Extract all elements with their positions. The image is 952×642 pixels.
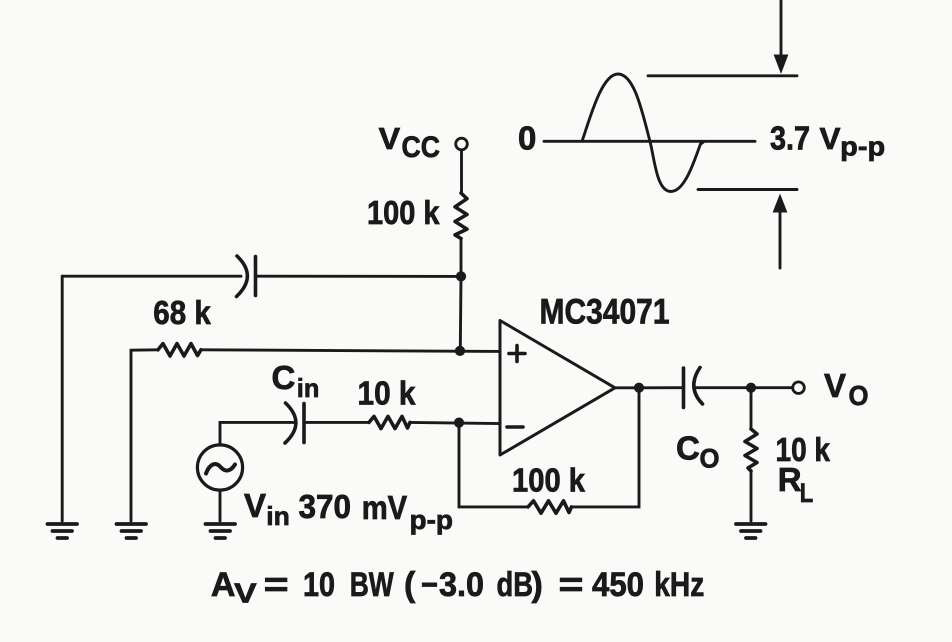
- svg-text:p-p: p-p: [410, 505, 454, 535]
- label gain and bandwidth formula: [211, 566, 704, 609]
- svg-text:C: C: [676, 430, 700, 467]
- wire VCC to R top: [460, 150, 463, 193]
- wire 10 k to op-amp - input: [410, 422, 500, 423]
- svg-text:MC34071: MC34071: [540, 293, 670, 332]
- node A junction: [456, 271, 466, 281]
- svg-text:V: V: [234, 578, 257, 609]
- svg-text:370: 370: [299, 488, 352, 525]
- wire left to resistor 68 k: [131, 348, 158, 351]
- wire capacitor to left rail: [62, 275, 241, 278]
- terminal Vo: [793, 382, 805, 394]
- waveform upper arrow: [780, 0, 783, 55]
- svg-text:O: O: [849, 380, 869, 411]
- svg-text:V: V: [820, 121, 841, 156]
- op-amp + symbol: [509, 346, 525, 362]
- wire node A to node B: [459, 276, 463, 351]
- svg-text:mV: mV: [362, 489, 408, 526]
- svg-text:dB: dB: [497, 566, 534, 604]
- waveform zero line: [544, 140, 755, 143]
- wire feedback left segment: [459, 505, 528, 508]
- svg-text:O: O: [700, 444, 720, 474]
- resistor 68 k: [158, 344, 201, 356]
- ground G4: [736, 524, 766, 538]
- wire R bottom to node A: [460, 239, 463, 277]
- ground G1: [48, 524, 78, 538]
- svg-text:=: =: [559, 566, 584, 604]
- svg-text:CC: CC: [402, 131, 441, 164]
- svg-text:10: 10: [303, 566, 335, 604]
- label VCC: [379, 121, 440, 164]
- wire RL to ground: [750, 471, 753, 521]
- sine symbol inside Vin: [206, 464, 235, 473]
- svg-text:=: =: [264, 566, 289, 604]
- terminal VCC: [456, 138, 468, 150]
- svg-text:450: 450: [592, 566, 644, 604]
- svg-text:kHz: kHz: [654, 566, 704, 604]
- wire node C down to feedback: [458, 423, 461, 507]
- svg-text:100 k: 100 k: [367, 194, 440, 231]
- svg-text:(: (: [404, 566, 416, 604]
- wire Vin top to input line: [220, 422, 294, 445]
- wire Co to terminal Vo: [696, 386, 793, 389]
- wire 68 k to op-amp + input: [201, 350, 500, 352]
- svg-text:0: 0: [518, 120, 536, 157]
- svg-text:A: A: [211, 566, 236, 604]
- label Co: [676, 430, 720, 474]
- wire node E down to RL: [750, 388, 753, 429]
- wire Vin bottom to ground: [219, 490, 222, 521]
- waveform lower arrow: [779, 212, 782, 269]
- svg-text:100 k: 100 k: [512, 462, 586, 499]
- svg-text:3.0: 3.0: [439, 566, 484, 604]
- node B junction: [455, 346, 465, 356]
- waveform sine curve: [582, 74, 703, 192]
- label Cin: [272, 359, 320, 403]
- source Vin circle: [197, 445, 242, 490]
- svg-text:3.7: 3.7: [770, 120, 810, 157]
- svg-text:R: R: [778, 461, 802, 498]
- svg-text:p-p: p-p: [840, 132, 885, 162]
- svg-text:−: −: [421, 566, 438, 604]
- svg-text:L: L: [800, 478, 814, 508]
- svg-text:in: in: [297, 373, 320, 403]
- svg-text:BW: BW: [350, 566, 395, 604]
- svg-text:68 k: 68 k: [153, 294, 211, 331]
- svg-text:V: V: [824, 367, 846, 404]
- resistor RL 10 k: [745, 429, 757, 471]
- wire op-amp output: [615, 386, 682, 389]
- wire Cin to resistor 10 k: [305, 421, 369, 424]
- op-amp - symbol: [507, 425, 523, 429]
- svg-text:): ): [532, 566, 543, 604]
- ground G3: [206, 524, 236, 538]
- capacitor Cin: [285, 403, 296, 443]
- wire left rail down: [61, 276, 64, 521]
- ground G2: [117, 524, 147, 538]
- node C junction: [454, 418, 464, 428]
- waveform lower peak line: [698, 188, 797, 191]
- resistor 100 k pull-up: [455, 193, 467, 239]
- wire 68k left rail down: [130, 350, 133, 521]
- label Vo: [824, 367, 869, 411]
- label RL: [778, 461, 814, 508]
- node D output junction: [634, 383, 644, 393]
- capacitor C1 bypass: [237, 256, 248, 297]
- node E junction: [746, 383, 756, 393]
- svg-text:in: in: [266, 501, 290, 531]
- wire feedback right segment: [572, 388, 640, 507]
- capacitor Co: [682, 368, 686, 408]
- resistor 100 k feedback: [528, 501, 572, 513]
- svg-text:10 k: 10 k: [358, 375, 417, 412]
- op-amp U1 MC34071: [500, 321, 615, 456]
- waveform upper peak line: [648, 74, 797, 77]
- svg-text:V: V: [379, 121, 401, 156]
- wire node A left to capacitor: [257, 275, 462, 278]
- label 3.7 Vp-p: [770, 120, 885, 162]
- svg-text:C: C: [272, 359, 296, 396]
- svg-text:V: V: [244, 487, 266, 524]
- label Vin 370 mVp-p: [244, 487, 453, 535]
- resistor 10 k input: [369, 416, 410, 428]
